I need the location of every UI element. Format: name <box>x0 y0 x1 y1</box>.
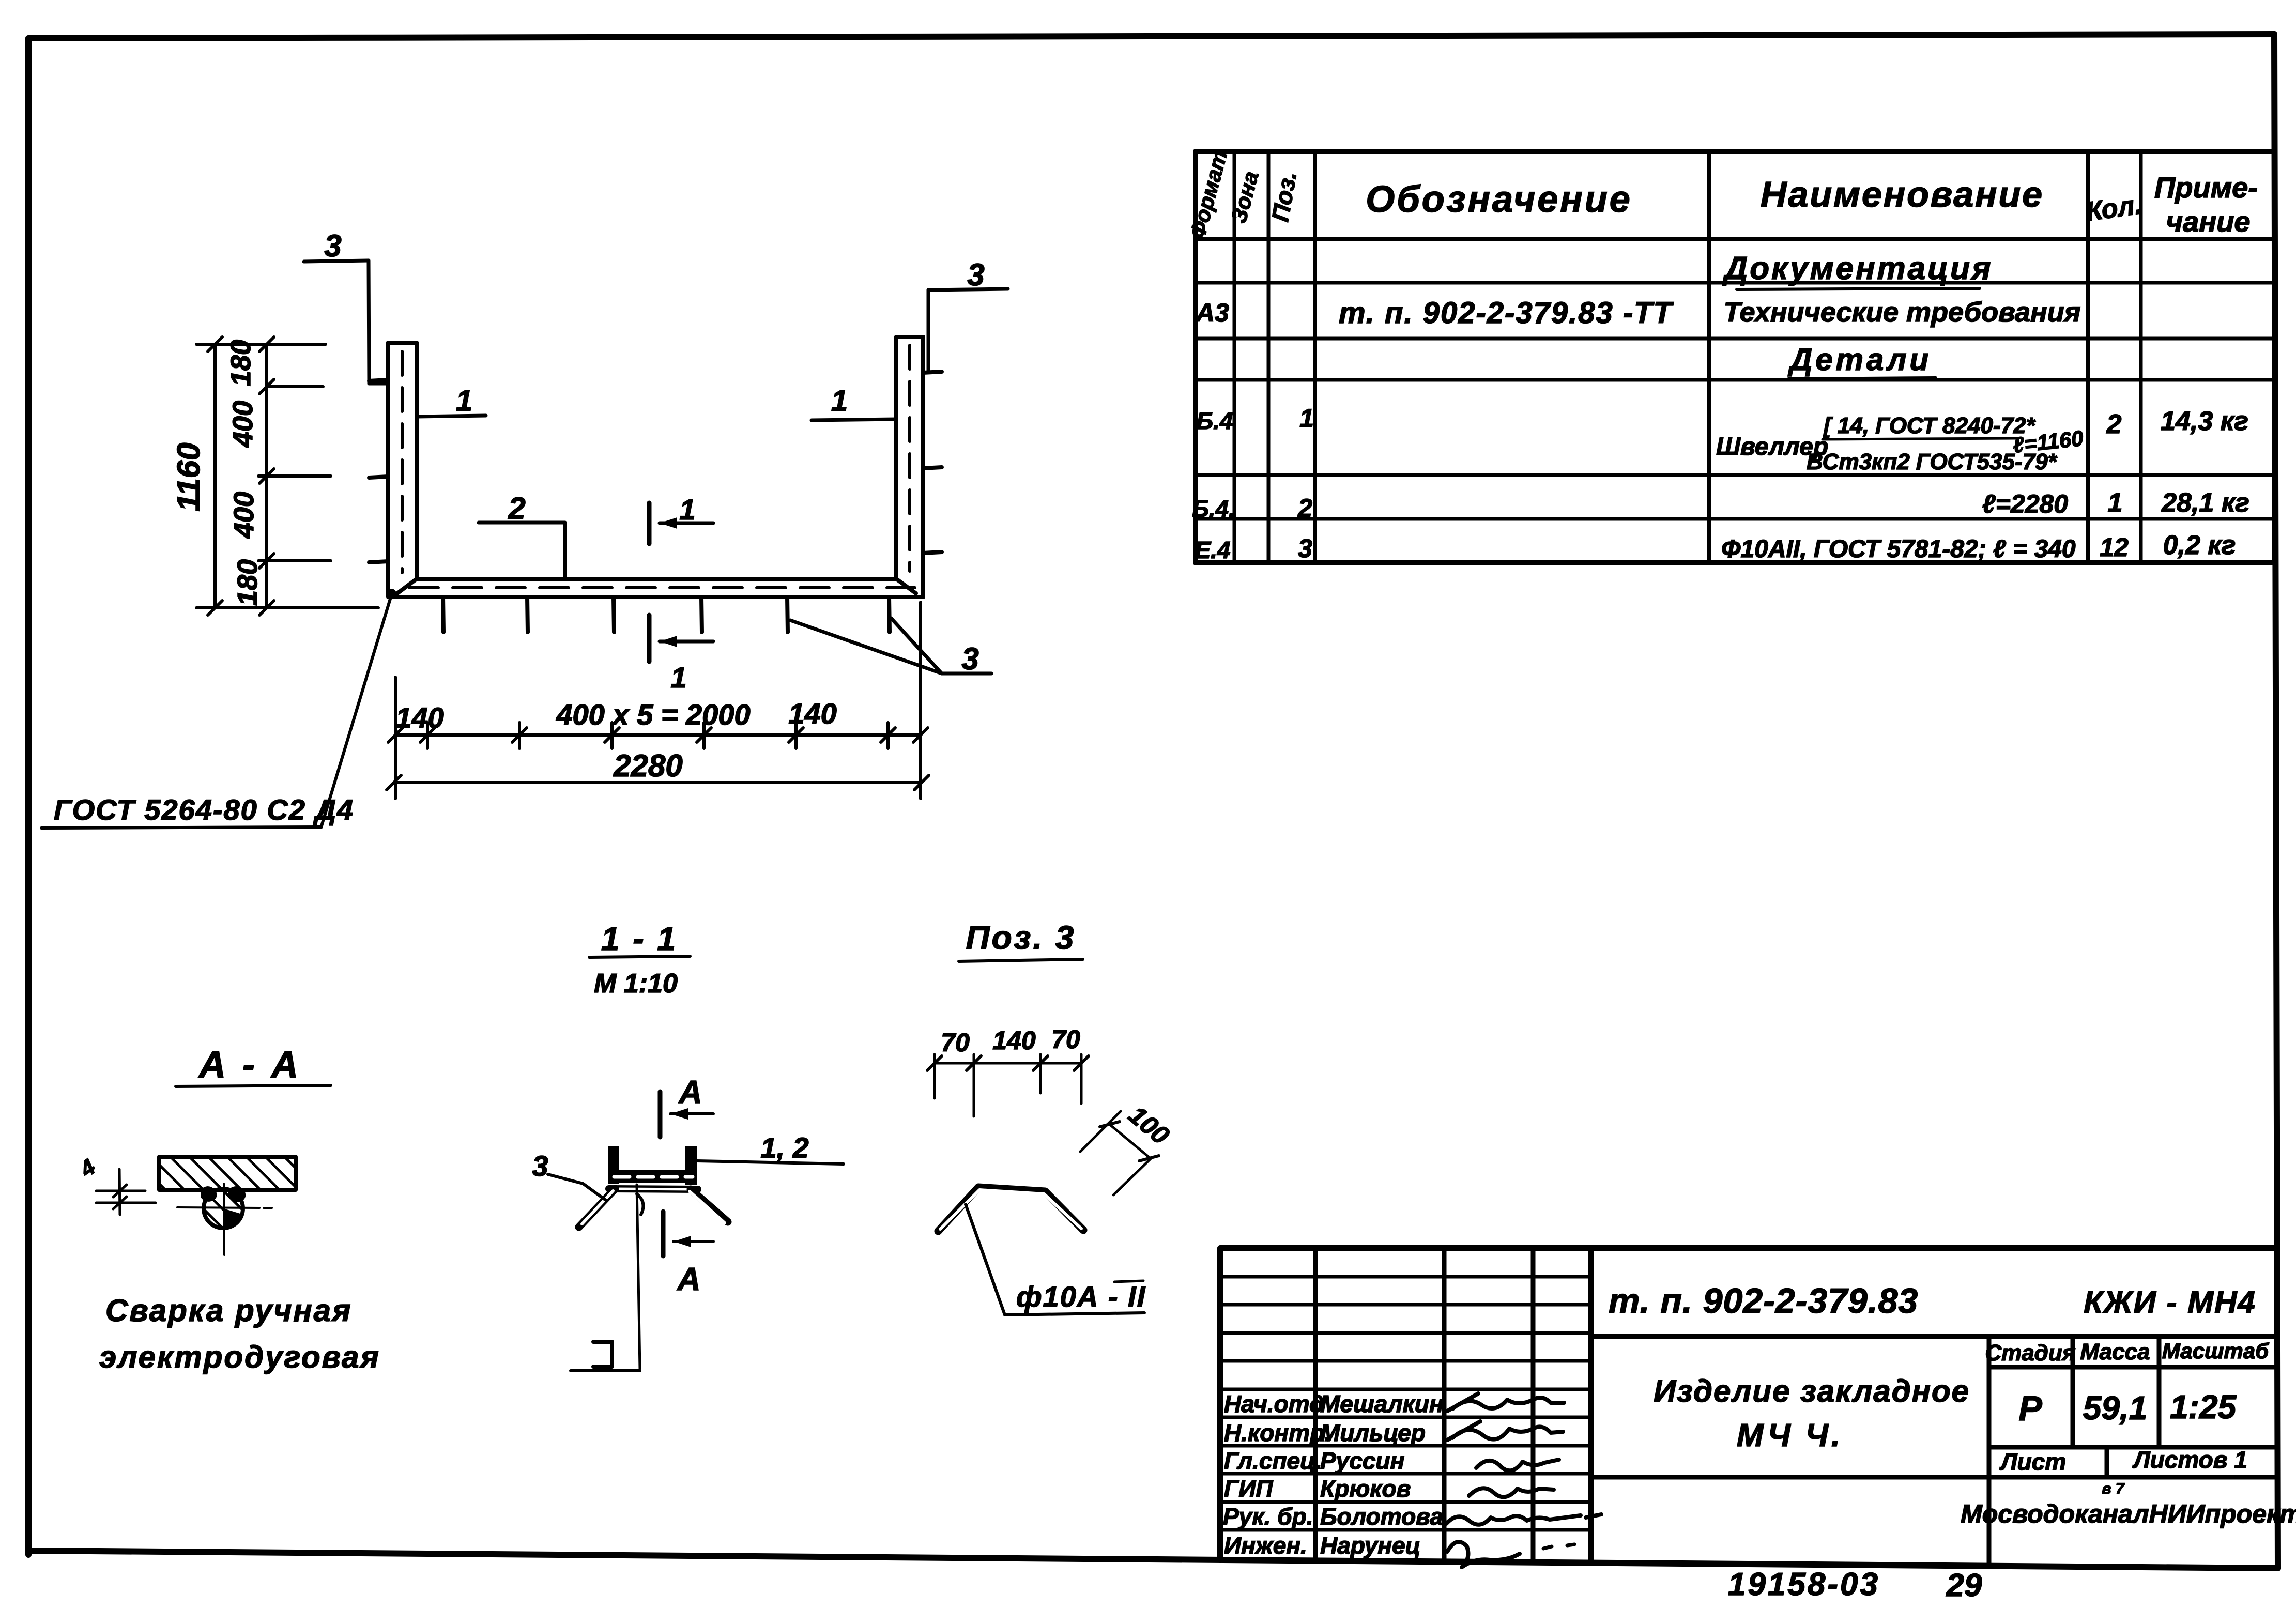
svg-text:Документация: Документация <box>1722 251 1993 286</box>
svg-text:1: 1 <box>670 661 686 694</box>
svg-text:КЖИ - МН4: КЖИ - МН4 <box>2084 1285 2256 1320</box>
position leader 1 right <box>812 419 896 420</box>
svg-text:ℓ=2280: ℓ=2280 <box>1982 489 2068 518</box>
svg-text:14,3 кг: 14,3 кг <box>2161 406 2248 436</box>
leader 1,2 to channel <box>697 1161 844 1164</box>
svg-text:180: 180 <box>232 559 263 606</box>
svg-text:Нарунец: Нарунец <box>1320 1532 1420 1559</box>
svg-text:т. п. 902-2-379.83 -ТТ: т. п. 902-2-379.83 -ТТ <box>1339 296 1674 330</box>
position leader 2 <box>479 523 565 578</box>
svg-text:Стадия: Стадия <box>1985 1340 2075 1366</box>
anchors pos3 on left channel <box>369 380 388 562</box>
svg-text:Масштаб: Масштаб <box>2162 1339 2269 1363</box>
section 1-1 anchor left leg <box>579 1189 615 1227</box>
svg-text:0,2 кг: 0,2 кг <box>2163 530 2236 560</box>
svg-text:Мильцер: Мильцер <box>1320 1419 1426 1446</box>
anchors pos3 under bottom channel <box>443 597 890 632</box>
section A-A weld beads <box>201 1186 217 1202</box>
svg-text:ГИП: ГИП <box>1224 1475 1273 1502</box>
svg-text:Б.4: Б.4 <box>1197 407 1233 434</box>
svg-text:400: 400 <box>227 401 258 448</box>
svg-text:400: 400 <box>228 492 259 539</box>
svg-text:2280: 2280 <box>613 748 682 783</box>
position leader 3 top-left <box>304 261 388 384</box>
svg-text:140: 140 <box>788 697 836 730</box>
svg-text:Рук. бр.: Рук. бр. <box>1223 1503 1313 1530</box>
svg-text:МосводоканалНИИпроект: МосводоканалНИИпроект <box>1961 1499 2296 1528</box>
svg-text:3: 3 <box>532 1150 548 1182</box>
svg-text:400 x 5 = 2000: 400 x 5 = 2000 <box>556 698 750 731</box>
Pos.3 bent bar <box>938 1187 1083 1231</box>
svg-text:2: 2 <box>1297 494 1312 523</box>
svg-text:МЧ Ч.: МЧ Ч. <box>1737 1418 1843 1453</box>
svg-text:Детали: Детали <box>1787 342 1932 377</box>
svg-text:3: 3 <box>1298 534 1312 563</box>
section mark 1-1 lower <box>649 615 713 662</box>
svg-text:Н.контр.: Н.контр. <box>1224 1419 1331 1446</box>
svg-text:Листов 1: Листов 1 <box>2132 1446 2247 1473</box>
section mark 1-1 upper <box>649 503 713 544</box>
left dimension chain <box>196 337 378 615</box>
section 1-1 anchor right leg <box>691 1189 728 1222</box>
svg-text:1:25: 1:25 <box>2170 1388 2237 1426</box>
svg-text:в 7: в 7 <box>2102 1480 2124 1497</box>
svg-text:140: 140 <box>395 701 443 734</box>
leader 3 to anchor <box>548 1174 606 1200</box>
svg-text:28,1 кг: 28,1 кг <box>2161 488 2249 518</box>
position leader 3 bottom-right <box>790 618 991 673</box>
anchors pos3 on right channel <box>923 372 942 553</box>
svg-text:А: А <box>677 1262 701 1297</box>
line under designation row <box>1591 1334 2275 1339</box>
section mark A lower <box>663 1212 713 1256</box>
svg-text:Технические требования: Технические требования <box>1724 297 2081 328</box>
svg-text:70: 70 <box>1051 1025 1080 1054</box>
svg-text:140: 140 <box>992 1026 1036 1055</box>
svg-text:чание: чание <box>2166 205 2251 238</box>
svg-text:3: 3 <box>324 228 341 263</box>
weld note leader <box>322 595 391 826</box>
section A-A centerlines <box>224 1184 224 1255</box>
svg-text:Инжен.: Инжен. <box>1224 1532 1307 1559</box>
svg-text:Нач.отд: Нач.отд <box>1224 1390 1324 1417</box>
main elevation view of embedded item MH4 <box>369 337 942 632</box>
svg-text:Руссин: Руссин <box>1320 1447 1404 1474</box>
svg-text:электродуговая: электродуговая <box>99 1340 380 1374</box>
position leader 3 top-right <box>928 289 1008 372</box>
svg-text:1: 1 <box>456 384 472 418</box>
weld size 4 dimension <box>96 1169 156 1215</box>
title block outer <box>1220 1248 2275 1560</box>
svg-text:1: 1 <box>1299 404 1314 433</box>
svg-text:1, 2: 1, 2 <box>760 1131 808 1164</box>
svg-text:19158-03: 19158-03 <box>1728 1567 1880 1602</box>
svg-text:1160: 1160 <box>171 442 207 511</box>
svg-text:А - А: А - А <box>198 1044 301 1085</box>
svg-text:Масса: Масса <box>2080 1339 2150 1365</box>
svg-text:[ 14, ГОСТ 8240-72*: [ 14, ГОСТ 8240-72* <box>1823 413 2036 438</box>
svg-text:Крюков: Крюков <box>1320 1475 1411 1502</box>
svg-text:1: 1 <box>831 384 848 418</box>
svg-text:Приме-: Приме- <box>2154 171 2258 204</box>
Pos.3 dimension 100 (diagonal) <box>1080 1111 1159 1195</box>
position leader 1 left <box>417 416 486 417</box>
svg-text:3: 3 <box>961 641 978 676</box>
svg-text:ГОСТ 5264-80 С2 Д4: ГОСТ 5264-80 С2 Д4 <box>54 793 354 826</box>
svg-text:1 - 1: 1 - 1 <box>601 920 678 957</box>
svg-text:Е.4: Е.4 <box>1195 537 1230 563</box>
svg-text:Поз. 3: Поз. 3 <box>966 919 1076 956</box>
svg-text:М 1:10: М 1:10 <box>594 969 678 999</box>
svg-text:1: 1 <box>2108 488 2123 518</box>
svg-text:180: 180 <box>225 340 256 386</box>
svg-text:Обозначение: Обозначение <box>1366 179 1632 220</box>
weld leader with arc <box>637 1185 640 1369</box>
svg-text:2: 2 <box>508 491 525 526</box>
section 1-1 channel profile <box>608 1146 697 1185</box>
bottom dimension chain <box>387 602 929 799</box>
svg-text:70: 70 <box>941 1028 970 1057</box>
svg-text:3: 3 <box>967 257 984 292</box>
stage table <box>1591 1336 2275 1566</box>
title block signature grid <box>1220 1248 1591 1562</box>
svg-text:1: 1 <box>679 493 695 526</box>
svg-text:2: 2 <box>2106 409 2122 439</box>
weld point bottom-left corner <box>386 589 396 599</box>
svg-text:Болотова: Болотова <box>1320 1503 1443 1530</box>
svg-text:Гл.спец.: Гл.спец. <box>1224 1447 1322 1474</box>
svg-text:Мешалкин: Мешалкин <box>1320 1390 1444 1417</box>
channel pos1 right (vertical) <box>896 337 923 595</box>
svg-text:Наименование: Наименование <box>1761 174 2044 215</box>
svg-text:Лист: Лист <box>1999 1448 2066 1475</box>
svg-text:ф10А - II: ф10А - II <box>1016 1280 1146 1313</box>
channel pos1 left (vertical) <box>388 343 417 597</box>
weld symbol bracket <box>593 1342 612 1367</box>
specification table <box>1196 151 2274 563</box>
svg-text:т. п. 902-2-379.83: т. п. 902-2-379.83 <box>1609 1281 1918 1321</box>
svg-text:59,1: 59,1 <box>2083 1389 2148 1427</box>
svg-text:Изделие закладное: Изделие закладное <box>1654 1374 1970 1408</box>
Pos.3 dimension chain 70 140 70 <box>927 1054 1089 1116</box>
svg-text:Р: Р <box>2018 1389 2042 1428</box>
section A-A bar circle (hatched) <box>204 1189 243 1228</box>
channel pos2 bottom (horizontal) <box>388 579 923 597</box>
svg-text:Б.4.: Б.4. <box>1192 495 1235 522</box>
svg-text:Ф10АII, ГОСТ 5781-82; ℓ = 340: Ф10АII, ГОСТ 5781-82; ℓ = 340 <box>1721 535 2076 563</box>
svg-text:Сварка ручная: Сварка ручная <box>105 1293 352 1328</box>
svg-text:12: 12 <box>2100 533 2129 562</box>
svg-text:А: А <box>678 1075 702 1110</box>
svg-text:А3: А3 <box>1195 298 1229 327</box>
section 1-1 anchor bar across <box>609 1189 698 1189</box>
section A-A plate (hatched) <box>159 1157 296 1190</box>
section mark A upper <box>660 1092 713 1137</box>
svg-text:29: 29 <box>1946 1568 1982 1603</box>
